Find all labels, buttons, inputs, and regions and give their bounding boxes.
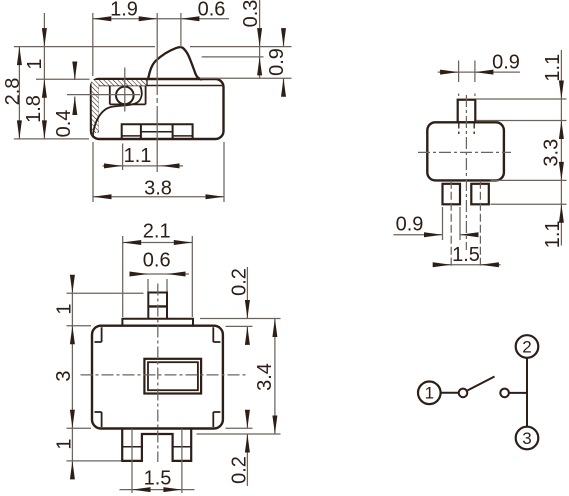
fixed contact circle — [500, 389, 509, 398]
top view dimension lines — [67, 236, 281, 493]
switch body top view — [92, 326, 223, 429]
side view arrows — [17, 16, 224, 199]
svg-text:1.5: 1.5 — [452, 244, 480, 266]
svg-text:1: 1 — [425, 384, 434, 403]
front view dimension lines — [394, 50, 567, 265]
svg-text:3: 3 — [522, 429, 531, 448]
top view centerlines — [81, 284, 249, 463]
wire pin2 to pin3 — [526, 358, 528, 426]
svg-text:0.2: 0.2 — [229, 456, 251, 484]
actuator bump on side view — [148, 47, 201, 80]
svg-text:1.1: 1.1 — [542, 220, 564, 248]
internal contact dome circle — [93, 86, 146, 138]
svg-text:3.4: 3.4 — [254, 363, 276, 391]
svg-text:1: 1 — [24, 58, 46, 69]
svg-text:1.1: 1.1 — [542, 54, 564, 82]
svg-text:1.9: 1.9 — [110, 0, 138, 21]
movable contact circle — [459, 389, 468, 398]
front view arrows — [424, 70, 564, 268]
svg-text:0.2: 0.2 — [229, 268, 251, 296]
switch body front view — [427, 100, 504, 205]
svg-text:0.4: 0.4 — [53, 110, 75, 138]
svg-text:0.9: 0.9 — [396, 214, 424, 236]
actuator tab on top view — [122, 293, 193, 326]
schematic pin 1 terminal — [418, 382, 441, 405]
svg-text:1.8: 1.8 — [23, 95, 45, 123]
terminal block on side view — [122, 124, 193, 139]
switch arm — [468, 377, 495, 391]
side view dimension lines — [14, 13, 292, 202]
svg-text:0.9: 0.9 — [266, 48, 288, 76]
front view centerlines — [418, 95, 511, 269]
svg-text:0.9: 0.9 — [492, 52, 520, 74]
svg-text:1: 1 — [54, 438, 76, 449]
svg-text:3.3: 3.3 — [541, 139, 563, 167]
wire contact to bus — [509, 392, 527, 394]
actuator window on top view — [144, 359, 201, 394]
svg-text:3.8: 3.8 — [144, 178, 172, 200]
svg-text:1: 1 — [54, 303, 76, 314]
side view 0.3 and 0.9 arrows — [257, 28, 286, 97]
svg-text:0.6: 0.6 — [198, 0, 226, 21]
svg-text:2.1: 2.1 — [143, 221, 171, 243]
schematic pin 3 terminal — [516, 427, 539, 450]
schematic pin 2 terminal — [516, 335, 539, 358]
top view arrows — [70, 240, 278, 492]
svg-text:1.1: 1.1 — [124, 145, 152, 167]
svg-text:2: 2 — [522, 337, 531, 356]
svg-text:2.8: 2.8 — [2, 78, 24, 106]
svg-text:3: 3 — [53, 370, 75, 381]
svg-text:0.3: 0.3 — [240, 0, 262, 27]
wire pin1 to contact — [441, 392, 459, 394]
switch body side view — [91, 79, 224, 139]
svg-text:0.6: 0.6 — [143, 250, 171, 272]
side view 0.3 and 0.9 dimension lines — [200, 0, 292, 97]
bottom legs on top view — [122, 428, 191, 461]
svg-text:1.5: 1.5 — [144, 468, 172, 490]
